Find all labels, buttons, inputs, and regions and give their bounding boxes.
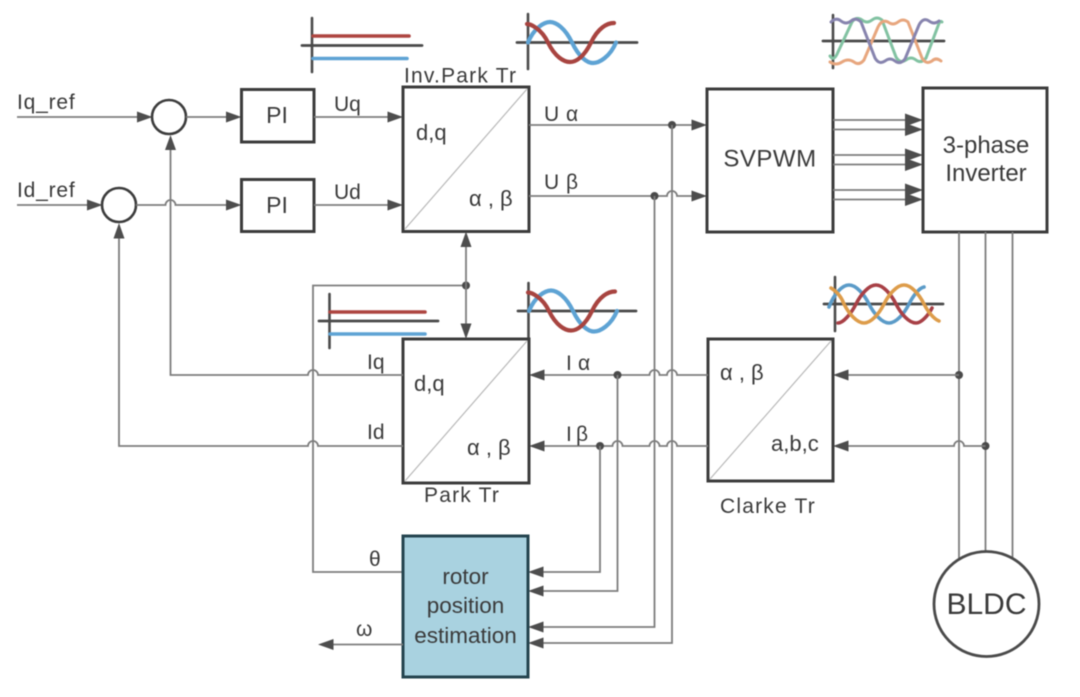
svg-text:Clarke Tr: Clarke Tr (720, 495, 816, 518)
wire Ubeta: Inv.Park to SVPWM (hop over x=669.5 drop) (529, 191, 707, 202)
svg-text:α: α (578, 352, 590, 375)
svg-text:SVPWM: SVPWM (723, 146, 816, 173)
wire orange sine c (831, 285, 939, 323)
block Park transform (403, 339, 529, 483)
svg-text:I: I (566, 352, 572, 375)
svg-text:d,q: d,q (416, 120, 447, 145)
block Clarke transform (708, 339, 833, 481)
svg-text:a,b,c: a,b,c (771, 431, 819, 456)
junction dot Ibeta tap (596, 442, 604, 450)
wire green svpwm wave (830, 18, 942, 62)
svg-text:rotor: rotor (442, 564, 489, 589)
junction dot Ialpha tap (614, 371, 622, 379)
motor BLDC (934, 552, 1039, 657)
svg-text:Iq_ref: Iq_ref (17, 91, 76, 114)
wire theta up into Inv.Park (461, 232, 472, 286)
svg-text:Iq: Iq (367, 351, 385, 374)
svg-text:α: α (566, 103, 578, 126)
PI controller block PI2 (242, 180, 315, 232)
wire phase c: inverter to BLDC (1012, 232, 1014, 560)
svg-text:estimation: estimation (414, 623, 517, 648)
svg-text:I: I (566, 423, 572, 446)
wire Ubeta drop to rotor estimator input 3 (528, 196, 655, 633)
svg-text:Park Tr: Park Tr (424, 484, 500, 507)
wire Id feedback: Park to S2 (hop over theta line at x=313) (114, 223, 404, 446)
junction dot phase b current tap (982, 442, 990, 450)
block 3-phase inverter (923, 88, 1047, 232)
svg-text:α , β: α , β (720, 360, 764, 385)
wire red sine b (838, 285, 932, 323)
svg-text:Id: Id (367, 421, 385, 444)
wire slate svpwm wave (831, 19, 939, 62)
wire orange svpwm wave (830, 20, 941, 64)
svg-text:Id_ref: Id_ref (17, 179, 76, 202)
icon: step response (left of Park) (319, 294, 438, 348)
svg-text:BLDC: BLDC (946, 588, 1026, 621)
icon: step response (top, above Inv.Park) (302, 18, 422, 72)
svg-text:Ud: Ud (334, 181, 361, 204)
icon: sine waves Ialpha/Ibeta (above Park right) (518, 283, 636, 338)
svg-text:PI: PI (266, 102, 288, 128)
svg-text:θ: θ (369, 548, 381, 571)
wire PWM pair 1 to inverter (833, 114, 923, 137)
wire phase b tap to Clarke (hop over phase a line) (833, 441, 986, 452)
svg-text:U: U (544, 171, 559, 194)
junction dot phase a current tap (955, 371, 963, 379)
block U1 Inv.Park transform (403, 87, 529, 232)
svg-text:d,q: d,q (414, 371, 445, 396)
wire Ibeta drop to rotor estimator input 1 (528, 446, 600, 578)
wire S1 to PI1 (186, 112, 242, 123)
svg-text:β: β (566, 171, 578, 194)
wire Ualpha: Inv.Park to SVPWM (529, 120, 707, 131)
icon: sine waves Ualpha/Ubeta (above Inv.Park right) (517, 14, 637, 69)
wire Iq_ref to summing junction S1 (17, 112, 153, 123)
wire Ibeta: Clarke to Park (hops over x=617.5, x=653, x=669.5 drops) (529, 441, 708, 452)
wire Ialpha drop to rotor estimator input 2 (528, 375, 618, 597)
wire omega output of rotor estimator (318, 639, 403, 650)
wire Ialpha: Clarke to Park (hops over x=653 and x=669.5 drops) (529, 370, 708, 381)
wire S2 to PI2 (hop over Iq feedback at x=169) (136, 200, 242, 211)
wire Iq feedback: Park to S1 (hop over theta line at x=313) (165, 135, 403, 375)
svg-text:3-phase: 3-phase (943, 132, 1030, 159)
block rotor position estimation (403, 536, 528, 677)
wire Ud: PI2 to Inv.Park (314, 200, 403, 211)
svg-text:Uq: Uq (334, 93, 361, 116)
wire phase a: inverter to BLDC (958, 232, 960, 560)
svg-text:β: β (576, 423, 588, 446)
wire Ualpha drop to rotor estimator input 4 (528, 125, 672, 649)
wire PWM pair 3 to inverter (833, 184, 923, 207)
wire phase a tap to Clarke (833, 370, 959, 381)
wire theta distribution: rotor estimator to transforms (313, 286, 466, 573)
wire theta down into Park (461, 286, 472, 340)
wire Id_ref to summing junction S2 (17, 200, 103, 211)
PI controller block PI1 (242, 90, 315, 143)
summing junction S1 (152, 100, 186, 134)
wire PWM pair 2 to inverter (833, 149, 923, 172)
svg-text:Inv.Park Tr: Inv.Park Tr (404, 65, 517, 88)
junction dot theta (462, 282, 470, 290)
svg-text:Inverter: Inverter (945, 160, 1026, 187)
svg-text:α , β: α , β (467, 435, 511, 460)
wire phase b: inverter to BLDC (985, 232, 987, 552)
wire blue sine a (829, 285, 924, 323)
svg-text:PI: PI (266, 192, 288, 218)
icon: 3-phase sine waves (above Clarke) (824, 277, 943, 331)
summing junction S2 (102, 188, 136, 222)
svg-text:α , β: α , β (469, 186, 513, 211)
junction dot Ualpha tap (668, 121, 676, 129)
junction dot Ubeta tap (651, 192, 659, 200)
block SVPWM (707, 89, 833, 232)
svg-text:U: U (544, 103, 559, 126)
svg-text:position: position (427, 593, 505, 618)
icon: SVPWM saddle waveforms (top right) (823, 15, 944, 68)
svg-text:ω: ω (356, 618, 372, 641)
wire Uq: PI1 to Inv.Park (314, 112, 403, 123)
